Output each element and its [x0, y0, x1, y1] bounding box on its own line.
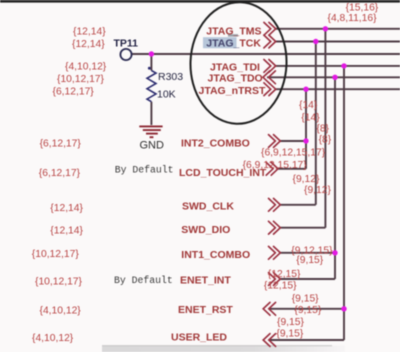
- port chevron LCD_TOUCH_INT: [266, 162, 278, 175]
- wire JTAG_TDO: [267, 76, 400, 78]
- wire JTAG_nTRST: [276, 88, 400, 90]
- svg-text:{9,15}: {9,15}: [296, 255, 323, 266]
- svg-text:{14}: {14}: [301, 112, 320, 123]
- svg-text:{9,12}: {9,12}: [293, 174, 320, 185]
- wire TP11 to R303: [150, 54, 152, 71]
- ground symbol: [139, 126, 162, 137]
- svg-text:{9,15}: {9,15}: [294, 305, 321, 316]
- svg-text:{12,14}: {12,14}: [50, 203, 83, 214]
- svg-text:{8}: {8}: [316, 124, 329, 135]
- svg-text:R303: R303: [158, 71, 183, 83]
- junction TCK: [313, 39, 318, 44]
- wire vertical TCK to SWD_CLK: [315, 42, 317, 205]
- port chevron USER_LED (left): [263, 334, 275, 347]
- wire ENET_RST: [269, 308, 344, 310]
- svg-text:{4,10,12}: {4,10,12}: [65, 62, 107, 73]
- svg-text:JTAG_TCK: JTAG_TCK: [206, 38, 261, 50]
- svg-text:INT1_COMBO: INT1_COMBO: [181, 249, 250, 261]
- svg-text:{6,12,17}: {6,12,17}: [39, 168, 81, 179]
- wire JTAG_TDI: [276, 65, 400, 67]
- port chevron INT2_COMBO: [269, 135, 281, 148]
- port chevron JTAG_nTRST: [264, 83, 276, 96]
- port chevron INT1_COMBO: [269, 246, 281, 259]
- svg-text:{10,12,17}: {10,12,17}: [57, 74, 105, 85]
- svg-text:{10,12,17}: {10,12,17}: [35, 277, 83, 288]
- svg-text:{12,14}: {12,14}: [73, 26, 106, 37]
- resistor R303: [147, 71, 156, 102]
- svg-text:{9,15}: {9,15}: [276, 329, 303, 340]
- port chevron SWD_DIO: [269, 221, 281, 234]
- port chevron SWD_CLK: [269, 198, 281, 211]
- svg-text:TP11: TP11: [114, 38, 139, 50]
- svg-text:ENET_INT: ENET_INT: [180, 275, 231, 287]
- wire SWD_CLK: [280, 204, 316, 206]
- wire R303 to GND: [150, 102, 152, 125]
- svg-text:10K: 10K: [157, 89, 176, 101]
- annotation ellipse around JTAG nets: [188, 0, 289, 125]
- wire vertical nTRST to LCD: [305, 89, 307, 169]
- wire INT1_COMBO: [280, 252, 335, 254]
- port chevron JTAG_TDI: [264, 60, 276, 73]
- svg-text:{10,12,17}: {10,12,17}: [32, 249, 80, 260]
- junction TDI: [341, 63, 346, 68]
- port chevron ENET_RST (left): [263, 302, 275, 315]
- svg-text:JTAG_TMS: JTAG_TMS: [206, 25, 261, 37]
- junction INT1_COMBO: [332, 250, 337, 255]
- wire INT2_COMBO: [280, 140, 306, 142]
- svg-text:{9,12}: {9,12}: [304, 185, 331, 196]
- svg-text:{8}: {8}: [319, 135, 332, 146]
- junction TDO: [332, 75, 337, 80]
- svg-text:{6,9,12,15,17}: {6,9,12,15,17}: [243, 160, 308, 171]
- testpoint TP11: [120, 49, 131, 60]
- svg-text:SWD_DIO: SWD_DIO: [181, 224, 230, 236]
- svg-text:{9,15}: {9,15}: [292, 294, 319, 305]
- top dark bar: [0, 0, 400, 3]
- svg-text:{6,12,17}: {6,12,17}: [40, 138, 82, 149]
- wire SWD_DIO: [280, 227, 325, 229]
- wire ENET_INT: [280, 278, 335, 280]
- svg-text:By Default: By Default: [115, 164, 174, 175]
- wire JTAG_TMS: [276, 28, 400, 30]
- svg-text:{4,10,12}: {4,10,12}: [40, 306, 82, 317]
- svg-text:JTAG_nTRST: JTAG_nTRST: [199, 85, 266, 97]
- wire USER_LED: [269, 339, 344, 341]
- port chevron JTAG_TMS: [264, 22, 276, 35]
- port chevron JTAG_TDO (left): [263, 71, 275, 84]
- wire JTAG_TCK: [276, 41, 400, 43]
- junction INT2_COMBO: [303, 138, 308, 143]
- svg-text:{12,14}: {12,14}: [72, 39, 105, 50]
- port chevron JTAG_TCK: [264, 35, 276, 48]
- svg-text:SWD_CLK: SWD_CLK: [182, 201, 234, 213]
- wire LCD_TOUCH_INT: [278, 168, 306, 170]
- svg-text:{6,12,17}: {6,12,17}: [53, 87, 95, 98]
- svg-text:GND: GND: [140, 139, 165, 151]
- svg-text:USER_LED: USER_LED: [171, 332, 227, 344]
- svg-text:{12,15}: {12,15}: [264, 281, 297, 292]
- svg-text:{4,8,11,16}: {4,8,11,16}: [328, 13, 378, 24]
- junction nTRST: [303, 87, 308, 92]
- wire vertical TMS to SWD_DIO: [324, 29, 326, 228]
- svg-text:INT2_COMBO: INT2_COMBO: [181, 138, 250, 150]
- svg-text:{12,15}: {12,15}: [268, 269, 301, 280]
- svg-text:By Default: By Default: [114, 275, 173, 286]
- wire TP11 net: [132, 53, 400, 55]
- pin dot R303: [148, 67, 151, 70]
- junction ENET_RST: [341, 306, 346, 311]
- svg-text:{14}: {14}: [299, 100, 318, 111]
- wire vertical TDO to ENET_INT: [334, 77, 336, 279]
- svg-text:ENET_RST: ENET_RST: [178, 304, 233, 316]
- svg-text:{9,15}: {9,15}: [277, 317, 304, 328]
- svg-text:{4,10,12}: {4,10,12}: [32, 333, 74, 344]
- svg-text:{12,14}: {12,14}: [50, 225, 83, 236]
- highlight JTAG_ of TCK: [203, 37, 237, 48]
- junction TMS: [323, 26, 328, 31]
- junction TP11 node: [149, 51, 154, 56]
- wire vertical TDI to USER_LED: [343, 66, 345, 340]
- svg-text:{6,9,12,15,17}: {6,9,12,15,17}: [261, 148, 326, 159]
- svg-text:JTAG_TDO: JTAG_TDO: [208, 73, 263, 85]
- port chevron ENET_INT: [269, 273, 281, 286]
